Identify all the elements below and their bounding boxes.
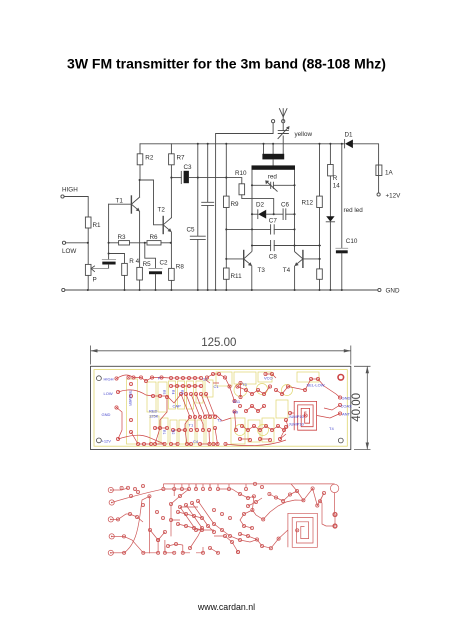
- node antenna terminals: [272, 120, 285, 123]
- svg-text:GND: GND: [342, 396, 351, 401]
- wire: antenna feed down line: [216, 123, 274, 290]
- trimmer capacitor red: [252, 180, 295, 191]
- dimension 40.00: [354, 366, 371, 449]
- PCB1 copper traces: [117, 374, 341, 446]
- svg-text:LOW: LOW: [62, 248, 76, 255]
- svg-text:125K: 125K: [149, 414, 159, 419]
- svg-text:www.cardan.nl: www.cardan.nl: [197, 602, 255, 612]
- inductor L2 wide bar: [252, 159, 296, 169]
- PCB1 board outline: [91, 366, 351, 449]
- node +12V terminal: [377, 193, 380, 196]
- svg-text:1A: 1A: [385, 170, 394, 177]
- svg-text:R5: R5: [143, 261, 152, 268]
- wire: R9 R11 bias line: [225, 144, 227, 290]
- svg-text:VCO: VCO: [264, 376, 273, 381]
- svg-text:R1: R1: [162, 430, 166, 434]
- transistor Q T1: [109, 196, 140, 213]
- svg-text:JUMP10: JUMP10: [289, 414, 305, 419]
- PCB1 mounting holes: [97, 376, 102, 381]
- wire: T1 base bias node: [108, 204, 110, 253]
- svg-text:R7: R7: [177, 155, 186, 162]
- svg-text:P: P: [158, 376, 161, 381]
- transistor Q T2: [163, 217, 172, 234]
- wire: top supply rail: [140, 144, 379, 193]
- transistor Q T4: [295, 251, 321, 291]
- svg-text:R9: R9: [231, 201, 240, 208]
- PCB2 antenna hole: [330, 484, 338, 492]
- svg-text:T4: T4: [329, 426, 334, 431]
- svg-text:R8: R8: [176, 264, 185, 271]
- diode D1: [345, 140, 353, 149]
- svg-text:T2: T2: [158, 207, 166, 214]
- inductor L1 top bar: [262, 136, 284, 159]
- capacitor C2: [145, 243, 162, 290]
- PCB2 copper traces: [163, 484, 246, 488]
- wire: T1 collector to T2 base coupling: [140, 180, 163, 225]
- svg-text:R2: R2: [171, 430, 175, 434]
- svg-text:R3: R3: [118, 234, 127, 241]
- svg-text:C2: C2: [203, 377, 209, 382]
- P wiper arrow: [91, 266, 95, 272]
- LED red led: [326, 216, 334, 290]
- svg-text:R5: R5: [162, 390, 166, 394]
- wire: T2 emitter lead: [170, 232, 172, 268]
- svg-text:C5: C5: [187, 227, 196, 234]
- resistor R12: [317, 196, 323, 207]
- svg-text:C8: C8: [269, 253, 278, 260]
- PCB1 silkscreen border: [94, 370, 347, 447]
- PCB1 pads: [115, 372, 342, 445]
- node HIGH input terminal: [61, 195, 88, 217]
- resistor R13: [317, 269, 323, 279]
- capacitor C10: [336, 144, 348, 290]
- capacitor C4: [202, 144, 214, 290]
- resistor R11: [224, 268, 230, 279]
- svg-text:C1: C1: [214, 384, 220, 389]
- PCB1 silkscreen text labels: [102, 376, 353, 445]
- svg-text:40.00: 40.00: [351, 393, 363, 422]
- PCB layout 2 copper side: [111, 484, 339, 554]
- resistor R2: [137, 144, 143, 180]
- resistor R9: [224, 196, 230, 207]
- resistor R4: [109, 254, 128, 291]
- resistor R6: [147, 241, 171, 245]
- svg-text:14: 14: [333, 183, 341, 190]
- svg-text:yellow: yellow: [295, 131, 313, 138]
- resistor R5: [137, 267, 143, 290]
- svg-text:GND: GND: [386, 288, 400, 295]
- resistor R10: [239, 184, 274, 214]
- svg-text:T2: T2: [217, 418, 222, 423]
- svg-text:C4: C4: [193, 439, 199, 444]
- resistor R7: [169, 144, 175, 165]
- svg-text:3W FM transmitter for the 3m b: 3W FM transmitter for the 3m band (88-10…: [67, 56, 386, 72]
- svg-text:R12: R12: [302, 200, 314, 207]
- svg-text:R11: R11: [233, 399, 241, 404]
- svg-text:C7: C7: [269, 218, 278, 225]
- PCB1 silkscreen component outlines: [127, 372, 320, 444]
- svg-text:R4: R4: [171, 390, 175, 394]
- svg-text:D2: D2: [256, 202, 265, 209]
- node ground terminal left: [62, 288, 65, 291]
- PCB2 spiral inductor: [288, 513, 317, 547]
- junction dots: [87, 143, 343, 291]
- transistor Q T3: [226, 251, 252, 291]
- wire: T2 collector lead: [170, 165, 172, 218]
- wire: R12 R13 bias line: [319, 144, 321, 290]
- svg-text:+12V: +12V: [386, 192, 402, 199]
- svg-text:TRIMMER: TRIMMER: [128, 390, 132, 406]
- svg-text:HIGH: HIGH: [62, 187, 78, 194]
- svg-text:T3: T3: [242, 382, 247, 387]
- fuse 1A: [376, 165, 382, 176]
- svg-text:R2: R2: [145, 155, 154, 162]
- svg-text:R1: R1: [93, 222, 102, 229]
- svg-text:T1: T1: [116, 198, 124, 205]
- svg-text:ANT: ANT: [342, 412, 351, 417]
- capacitor C7: [226, 225, 294, 234]
- antenna: [279, 109, 287, 122]
- resistor R1: [85, 217, 91, 228]
- schematic text labels: [62, 131, 401, 295]
- svg-text:R3: R3: [180, 390, 184, 394]
- svg-text:T3: T3: [258, 267, 266, 274]
- resistor R3: [109, 241, 147, 245]
- potentiometer P: [85, 243, 91, 290]
- capacitor C5: [190, 144, 205, 290]
- svg-text:T4: T4: [283, 267, 291, 274]
- svg-text:GND: GND: [102, 412, 111, 417]
- wire: T1 collector and emitter leads: [139, 180, 141, 267]
- svg-text:R9: R9: [233, 410, 239, 415]
- capacitor C1: [92, 254, 116, 269]
- svg-text:+12V: +12V: [102, 439, 112, 444]
- wire: tank right rail / T4 collector: [294, 170, 296, 251]
- wire: bottom ground rail: [65, 289, 378, 291]
- svg-text:C2: C2: [160, 260, 169, 267]
- dimension 125.00: [91, 346, 351, 365]
- svg-text:R11: R11: [231, 273, 243, 280]
- capacitor C8: [252, 241, 320, 251]
- svg-text:125.00: 125.00: [201, 337, 236, 349]
- PCB2 pads: [108, 482, 337, 555]
- capacitor C6: [274, 209, 295, 220]
- svg-text:C10: C10: [346, 238, 358, 245]
- svg-text:JUMP10: JUMP10: [289, 422, 305, 427]
- svg-text:COAX: COAX: [341, 404, 353, 409]
- svg-text:HIGH: HIGH: [104, 377, 114, 382]
- svg-text:C3: C3: [184, 164, 193, 171]
- trimmer capacitor yellow: [278, 123, 290, 139]
- svg-text:C6: C6: [281, 202, 290, 209]
- node GND terminal: [378, 288, 381, 291]
- wire: tank left rail / T3 collector: [251, 170, 253, 251]
- wire R1 to LOW node: [87, 228, 89, 243]
- resistor R14: [328, 144, 334, 217]
- svg-text:R 4: R 4: [129, 258, 139, 265]
- svg-text:SEL-LOW: SEL-LOW: [307, 383, 325, 388]
- svg-text:red led: red led: [344, 207, 364, 214]
- svg-text:D1: D1: [345, 132, 354, 139]
- diode D2 varicap: [252, 210, 274, 219]
- svg-text:P: P: [93, 277, 97, 284]
- capacitor C3: [171, 171, 241, 184]
- node LOW input terminal: [62, 241, 88, 244]
- resistor R8: [169, 268, 175, 290]
- svg-text:R6: R6: [150, 234, 159, 241]
- svg-text:R: R: [333, 175, 338, 182]
- svg-text:CAP: CAP: [173, 404, 182, 409]
- svg-text:red: red: [268, 173, 278, 180]
- PCB1 spiral inductor: [294, 401, 316, 430]
- svg-text:T1: T1: [189, 423, 194, 428]
- svg-text:R10: R10: [235, 170, 247, 177]
- svg-text:LOW: LOW: [104, 391, 113, 396]
